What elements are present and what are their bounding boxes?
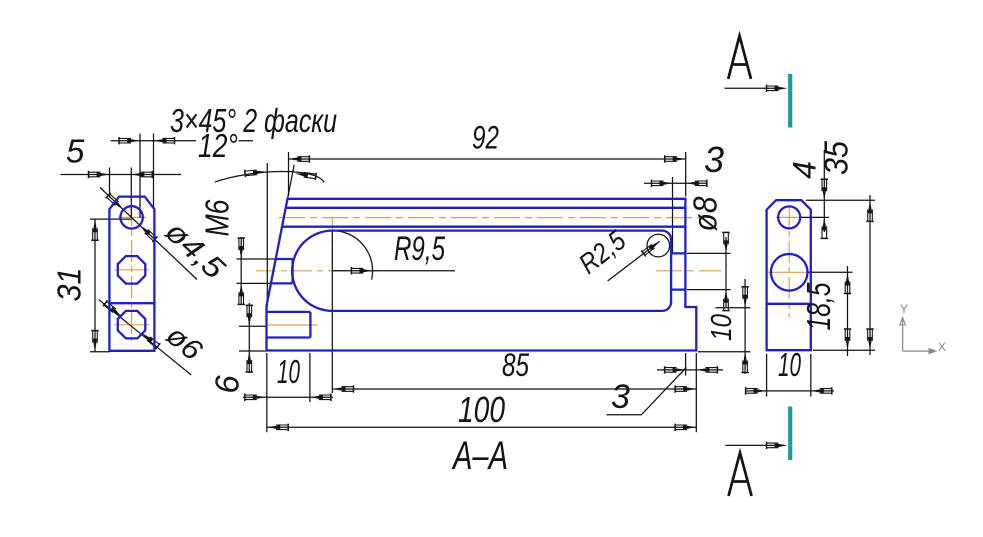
dimension 10 extension line right	[309, 353, 311, 402]
svg-text:X: X	[938, 340, 946, 354]
dimension 10 (right view) extension lines	[767, 354, 811, 397]
main view M6 hole lines	[271, 259, 293, 283]
dimension 31 line	[94, 219, 96, 352]
left view top hole	[120, 206, 142, 228]
leader phi6	[99, 300, 191, 375]
arrows dim 10 right view (outside)	[746, 387, 767, 394]
main view outline	[267, 199, 697, 351]
svg-text:31: 31	[51, 268, 88, 302]
dimension 5 line	[61, 174, 182, 176]
arrows dim 18,5	[844, 273, 851, 294]
dimension 10 (right view) line	[746, 390, 834, 392]
dimension 6 line	[248, 303, 250, 373]
svg-text:85: 85	[502, 347, 529, 383]
dimension 35 extension lines	[806, 200, 875, 350]
R2,5 leader line	[608, 241, 660, 281]
left view bottom threaded hole	[118, 311, 146, 339]
main view cavity top and right wall	[332, 231, 671, 311]
arrows dim 100	[267, 424, 288, 431]
12 deg: dimension arc	[215, 172, 324, 183]
dimension 5 extension lines	[110, 168, 132, 219]
main view right phi8 stubs	[671, 253, 685, 289]
arrow section top	[767, 85, 788, 92]
arrows dim 3 bottom (outside)	[665, 366, 686, 373]
arrows dim 31	[91, 219, 98, 240]
centerline: left view top hole horizontal	[118, 216, 146, 218]
centerline: circle vertical axis (main view)	[331, 217, 333, 276]
section arrow line bottom	[725, 444, 784, 446]
dimension 4 line	[823, 150, 825, 232]
arrows dim 92	[288, 155, 309, 162]
dimension 3 (bottom) extension line	[685, 353, 687, 376]
R9,5 dimension arc	[332, 231, 372, 280]
svg-text:R9,5: R9,5	[394, 230, 445, 268]
section arrow line top	[725, 87, 784, 89]
right view step line	[767, 303, 811, 305]
chamfer dimension 3x45 lines	[111, 140, 253, 142]
arrow R2,5	[641, 238, 662, 257]
dimension 18,5 line	[847, 266, 849, 356]
dimension 31 extension lines	[90, 219, 132, 352]
svg-text:A–A: A–A	[452, 434, 508, 478]
arrows dim M6 (outside)	[238, 238, 245, 259]
centerline: right phi8 axis (main view)	[656, 270, 721, 272]
chamfer dimension extension lines	[140, 134, 154, 219]
left view middle threaded hole	[118, 256, 146, 284]
dimension phi8 extension lines	[687, 253, 731, 289]
svg-text:10: 10	[778, 346, 801, 383]
main view channel line 2	[286, 207, 686, 209]
dimension 3 (top) extension line	[672, 177, 674, 254]
arrows dim 10 bottom left (outside)	[245, 394, 266, 401]
arrows dim 5 (outside)	[89, 171, 110, 178]
svg-text:ø8: ø8	[687, 196, 724, 232]
section plane mark top	[788, 74, 792, 128]
12 deg: vertical reference line	[266, 163, 268, 306]
centerline: bottom-left hole axis (main view)	[268, 324, 318, 326]
svg-text:M6: M6	[199, 199, 236, 237]
centerline: left view bottom hole horizontal	[115, 324, 150, 326]
arrows dim 85	[333, 385, 354, 392]
R2,5 dimension circle	[647, 234, 670, 257]
svg-text:12°: 12°	[198, 127, 238, 164]
dimension M6 line	[240, 237, 242, 305]
dimension 10 (bottom left) line	[243, 396, 333, 398]
arrows leader phi4,5	[106, 193, 126, 213]
dimension phi8 line	[725, 237, 727, 308]
svg-text:Y: Y	[900, 302, 908, 316]
arrows chamfer dim (outside)	[119, 137, 140, 144]
dimension 6 extension line	[239, 326, 268, 351]
dimension 92 line	[288, 158, 686, 160]
section letter A top	[728, 36, 751, 79]
centerline: left view vertical axis	[131, 204, 133, 341]
arrows dim 6 (outside)	[246, 305, 253, 326]
svg-text:35: 35	[818, 140, 855, 175]
centerline: top channel axis (main view)	[279, 217, 700, 219]
12 deg: slant extension line	[288, 165, 295, 199]
arrows 12 deg arc (outside)	[245, 168, 267, 177]
section plane mark bottom	[788, 407, 792, 461]
section letter A bottom	[729, 453, 752, 496]
svg-text:3×45° 2 фаски: 3×45° 2 фаски	[170, 102, 337, 139]
svg-text:100: 100	[458, 389, 505, 430]
left view outline	[109, 197, 154, 351]
svg-text:10: 10	[706, 314, 738, 341]
right view top hole	[778, 206, 800, 228]
svg-text:18,5: 18,5	[800, 282, 837, 330]
main view channel line 3	[282, 226, 685, 228]
left view step line	[109, 302, 154, 304]
leader phi4,5	[100, 188, 197, 280]
R9,5 leader line	[332, 270, 455, 272]
right view middle hole	[771, 254, 808, 291]
arrow R9,5	[351, 267, 372, 274]
svg-text:3: 3	[704, 139, 724, 180]
svg-text:6: 6	[209, 375, 246, 394]
right view outline	[767, 200, 811, 350]
main view bottom-left slot	[267, 312, 311, 338]
arrows dim 10 step (outside)	[741, 287, 748, 308]
dimension 3 (bottom) line	[657, 369, 723, 371]
dimension 4 extension line	[801, 216, 829, 218]
svg-text:3: 3	[611, 378, 630, 416]
arrow section bottom	[767, 442, 788, 449]
centerline: right view top hole horizontal	[776, 216, 803, 218]
dimension 35 line	[869, 195, 871, 355]
centerline: M6 / circle horizontal axis (main view)	[256, 270, 378, 272]
dimension 18,5 extension line	[808, 271, 853, 273]
arrows dim 4 (outside)	[821, 179, 828, 200]
dimension M6 extension lines	[237, 259, 277, 283]
dimension 3 (top) line	[644, 182, 707, 184]
centerline: left view middle hole horizontal	[115, 269, 150, 271]
main view cavity circle R9,5	[292, 231, 332, 311]
svg-text:10: 10	[277, 353, 300, 390]
arrows leader phi6	[103, 300, 124, 319]
dimension 3 (bottom) leader	[607, 367, 687, 414]
dimension 85 line	[332, 388, 696, 390]
extension line from circle centre down	[331, 231, 333, 393]
dimension 100 line	[267, 426, 696, 428]
arrows dim 35	[866, 200, 873, 221]
arrows dim phi8 (outside)	[722, 232, 729, 253]
dimension 100 extension lines	[267, 353, 697, 432]
svg-text:5: 5	[66, 133, 85, 170]
centerline: right view vertical axis	[788, 205, 790, 317]
dimension 10 (step) line	[744, 279, 746, 374]
dimension 10 (step) extension lines	[698, 308, 751, 352]
axes icon	[903, 319, 929, 351]
svg-text:92: 92	[472, 120, 499, 156]
dimension 92 extension lines	[289, 152, 686, 197]
centerline: right view middle hole horizontal	[768, 271, 812, 273]
arrows dim 3 top (outside)	[652, 180, 673, 187]
